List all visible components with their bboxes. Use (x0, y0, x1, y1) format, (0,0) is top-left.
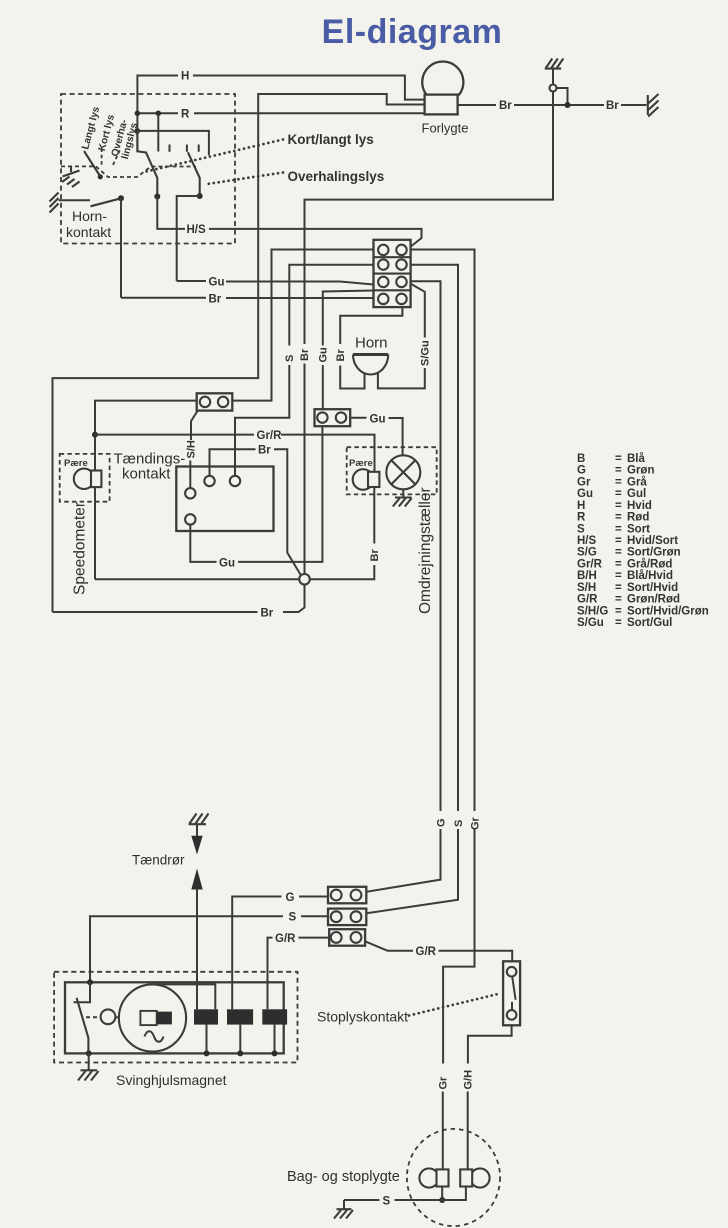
svg-text:Gu: Gu (219, 557, 235, 569)
dashed lever under Kort lys (101, 149, 103, 166)
svg-text:Sort/Gul: Sort/Gul (627, 617, 672, 629)
wire row1-right Gr down (411, 250, 475, 812)
wire points to ground (88, 1053, 90, 1070)
light switch dashed enclosure box (61, 94, 235, 244)
wire Gr/R (instrument lighting) (95, 434, 254, 436)
flywheel magneto solid box (65, 982, 284, 1053)
coil ground stubs (206, 1025, 208, 1054)
wire row1-left to instrument connector (232, 250, 373, 401)
svg-text:Pære: Pære (349, 458, 373, 469)
mechanical coupling dashed line (61, 166, 196, 177)
spark plug arrow up (191, 869, 202, 890)
svg-text:=: = (615, 605, 622, 617)
svg-text:kontakt: kontakt (66, 224, 111, 240)
tachometer lamp (X symbol) (386, 455, 420, 489)
contact tick switch2 b (198, 145, 200, 152)
horn contact ground (50, 193, 59, 213)
spark plug arrow down (191, 836, 202, 855)
speedometer bulb (74, 469, 94, 489)
dashed lever under Overhalingslys (113, 150, 120, 165)
ground (switch box internal) (62, 166, 80, 187)
solid selector pointer lever (84, 151, 100, 176)
svg-text:=: = (615, 488, 622, 500)
svg-text:G/R: G/R (577, 594, 598, 606)
svg-text:Hvid: Hvid (627, 500, 652, 512)
svg-text:=: = (615, 453, 622, 465)
svg-text:=: = (615, 465, 622, 477)
tail lamp bulb left (419, 1168, 438, 1187)
wire S lower (366, 829, 458, 913)
contact tick switch2 a (186, 145, 188, 152)
wire G/H from stop switch down (468, 1025, 512, 1063)
wire Br (ignition to junction circle) (210, 449, 256, 476)
svg-text:=: = (615, 476, 622, 488)
connector C2 (2-pin, tacho) (315, 409, 351, 426)
svg-text:H: H (181, 71, 189, 83)
svg-text:Bag- og stoplygte: Bag- og stoplygte (287, 1169, 400, 1185)
svg-text:Gr/R: Gr/R (577, 558, 603, 570)
wire row2-left (S) down to ignition switch (289, 265, 373, 346)
svg-text:Overhalingslys: Overhalingslys (288, 169, 385, 184)
sine symbol (145, 1031, 164, 1042)
wire G/R (coil3 to connector) (268, 938, 273, 1010)
svg-text:Blå: Blå (627, 453, 646, 465)
stop light switch box (503, 961, 520, 1025)
ground tail light (343, 1200, 345, 1209)
ignition switch box Taendingskontakt (176, 467, 273, 532)
svg-text:Forlygte: Forlygte (422, 121, 469, 136)
svg-text:=: = (615, 558, 622, 570)
svg-text:B/H: B/H (577, 570, 597, 582)
svg-text:Stoplyskontakt: Stoplyskontakt (317, 1009, 408, 1025)
horn contact wire (59, 199, 91, 201)
node horn contact dot (118, 195, 124, 201)
svg-text:G/R: G/R (275, 933, 296, 945)
svg-text:Omdrejningstæller: Omdrejningstæller (417, 487, 434, 614)
bullet connector (open circle) (550, 85, 557, 92)
svg-text:G: G (577, 465, 586, 477)
svg-text:S: S (383, 1195, 391, 1207)
svg-text:Br: Br (335, 349, 347, 362)
svg-text:S: S (577, 523, 585, 535)
wire Gu C2 to tacho lamp (350, 417, 366, 419)
wire row2-right S down (411, 265, 458, 811)
wire G lower (366, 829, 440, 892)
switch lever kort/langt lys (137, 131, 157, 197)
block pins row4 (378, 294, 388, 304)
headlight Forlygte dome (422, 62, 463, 95)
svg-text:Grøn: Grøn (627, 465, 654, 477)
wire from switch2 pivot down (to Gu) (177, 196, 200, 281)
svg-text:R: R (181, 109, 190, 121)
magnet rect black part (157, 1012, 172, 1025)
legend (577, 453, 709, 629)
node Br junction dot (565, 102, 571, 108)
svg-text:G/H: G/H (463, 1070, 475, 1090)
svg-text:B: B (577, 453, 585, 465)
horn (353, 353, 388, 356)
node switch2 pivot dot (197, 193, 203, 199)
tacho bulb (353, 469, 374, 490)
svg-text:=: = (615, 535, 622, 547)
svg-text:=: = (615, 512, 622, 524)
wire G (coil2 to connector) (232, 897, 281, 1010)
svg-text:Br: Br (209, 294, 222, 306)
svg-text:S: S (289, 912, 297, 924)
node switch1 pivot dot (154, 194, 160, 200)
wire Br junction to speedometer (95, 578, 299, 580)
wire ground to bullet connector (552, 69, 554, 85)
svg-text:Horn-: Horn- (72, 208, 107, 224)
svg-text:Grå: Grå (627, 476, 647, 488)
wire horn contact down to Br (120, 198, 122, 297)
svg-text:=: = (615, 617, 622, 629)
condenser dashed link (86, 1016, 100, 1018)
svg-text:S/H: S/H (577, 582, 596, 594)
wire connector to Br line (557, 88, 568, 105)
speedometer bulb dashed box (60, 454, 110, 502)
label Overha-lingslys (rotated) (110, 118, 141, 160)
svg-text:H/S: H/S (577, 535, 597, 547)
svg-text:Gul: Gul (627, 488, 646, 500)
wire C1-left to speedometer bulb (95, 401, 197, 471)
wire Br junction down to bottom loop (283, 585, 305, 612)
wire bulb down to Br (94, 487, 96, 579)
svg-text:S: S (284, 355, 296, 362)
connector block (4-row terminal strip) (374, 240, 411, 307)
wire G/R right (to stop light switch) (365, 941, 413, 951)
svg-text:H: H (577, 500, 585, 512)
svg-text:Svinghjulsmagnet: Svinghjulsmagnet (116, 1072, 227, 1088)
wire row4 bottom Br to horn (340, 307, 402, 344)
wire S (points to connector) (90, 916, 283, 982)
wire S (344, 1199, 380, 1201)
block pins row1 (378, 245, 388, 255)
svg-text:Br: Br (369, 549, 381, 562)
svg-text:S: S (453, 820, 465, 827)
tail light dashed circle (407, 1129, 500, 1226)
svg-text:Gr/R: Gr/R (257, 430, 283, 442)
stop light switch lever (512, 977, 515, 1000)
wire ground to spark gap (196, 824, 198, 836)
ignition coil (black) (194, 1009, 218, 1024)
wire Br (horn contact to connector block row4) (121, 297, 206, 299)
wire Gu (switch to connector block row3) (177, 280, 206, 282)
wire lamp to ground (402, 489, 404, 497)
svg-text:Sort/Hvid: Sort/Hvid (627, 582, 678, 594)
svg-text:S/H: S/H (185, 440, 197, 458)
node Gr/R junction dot (92, 432, 98, 438)
spark plug ground (189, 814, 209, 825)
svg-text:=: = (615, 500, 622, 512)
svg-text:=: = (615, 582, 622, 594)
switch lever overhalingslys (188, 152, 200, 196)
wire Br headlight right (458, 104, 496, 106)
ground magneto (78, 1070, 99, 1080)
contact breaker lever (77, 998, 89, 1054)
svg-text:Kort/langt lys: Kort/langt lys (288, 132, 374, 147)
svg-text:Grå/Rød: Grå/Rød (627, 558, 672, 570)
wire Gu (ignition bottom to connector C2) (190, 525, 216, 562)
horn contact lever (91, 198, 122, 206)
dotted callout to Overhalingslys (204, 173, 283, 185)
magnet rect white part (140, 1011, 156, 1025)
svg-text:G/R: G/R (416, 946, 437, 958)
svg-text:Br: Br (261, 608, 274, 620)
svg-text:Horn: Horn (355, 335, 388, 352)
svg-text:=: = (615, 570, 622, 582)
svg-text:G: G (435, 818, 447, 827)
wire R contact stub (157, 113, 159, 151)
wire S/H (C1 to ignition switch) (191, 411, 198, 440)
svg-text:S/G: S/G (577, 547, 597, 559)
svg-text:=: = (615, 523, 622, 535)
svg-text:Gr: Gr (469, 816, 481, 830)
svg-text:Gu: Gu (209, 277, 225, 289)
ground right of headlight (648, 94, 659, 117)
wire row3/4 S/Gu to horn (411, 284, 425, 338)
lighting coil G/R (black) (262, 1009, 287, 1024)
svg-text:Grøn/Rød: Grøn/Rød (627, 594, 680, 606)
contact breaker wire from S (87, 979, 93, 985)
svg-text:Sort/Hvid/Grøn: Sort/Hvid/Grøn (627, 605, 709, 617)
wire Gr lower (to stop light area) (443, 829, 474, 1064)
svg-text:H/S: H/S (187, 224, 207, 236)
svg-text:G: G (286, 892, 295, 904)
block pins row3 (378, 277, 388, 287)
svg-text:Pære: Pære (64, 458, 88, 469)
node: H/R junction dots (135, 111, 141, 117)
dotted callout to stop light switch (409, 994, 500, 1016)
lighting coil G (black) (227, 1009, 253, 1024)
svg-text:Rød: Rød (627, 512, 649, 524)
block pins row2 (378, 259, 388, 269)
tail lamp bulb right (470, 1168, 489, 1187)
svg-text:El-diagram: El-diagram (322, 13, 503, 51)
svg-text:S/Gu: S/Gu (577, 617, 604, 629)
flywheel rotor circle (119, 984, 186, 1051)
svg-text:Sort: Sort (627, 523, 650, 535)
dotted callout to Kort/langt lys (142, 140, 283, 173)
svg-text:kontakt: kontakt (122, 466, 171, 483)
flywheel magneto dashed box (54, 972, 297, 1063)
svg-text:R: R (577, 512, 586, 524)
tacho bulb dashed box (347, 447, 437, 494)
svg-text:Br: Br (258, 445, 271, 457)
svg-text:Gr: Gr (438, 1076, 450, 1090)
svg-text:Blå/Hvid: Blå/Hvid (627, 570, 673, 582)
svg-text:Gu: Gu (317, 347, 329, 362)
ground tacho lamp (393, 498, 412, 507)
svg-text:Speedometer: Speedometer (72, 502, 89, 595)
contact tick switch1 (169, 145, 171, 152)
svg-text:=: = (615, 547, 622, 559)
condenser tick to flywheel (115, 1016, 119, 1018)
condenser circle (101, 1009, 116, 1024)
wire Gu row3 to C2 (323, 291, 374, 346)
wire spark plug to ignition coil (196, 890, 198, 1010)
wire flywheel to ignition coil (153, 984, 216, 1009)
svg-text:Hvid/Sort: Hvid/Sort (627, 535, 678, 547)
wire parking-light feed (headlight to speedometer loop) (53, 94, 425, 612)
junction circle (Br distribution) (299, 574, 310, 585)
svg-text:Gr: Gr (577, 476, 591, 488)
svg-text:Gu: Gu (370, 413, 386, 425)
wire H/S (157, 197, 185, 229)
connector C1 (2-pin, instruments) (197, 393, 233, 410)
wire Br main drop (to junction circle) (305, 92, 554, 345)
ground above connector (545, 59, 564, 69)
wire left bulb to S (441, 1187, 443, 1201)
wire H (headlight main feed) (137, 76, 178, 152)
svg-text:Br: Br (299, 348, 311, 361)
svg-text:Gu: Gu (577, 488, 593, 500)
svg-text:=: = (615, 594, 622, 606)
headlight Forlygte body (425, 95, 458, 115)
svg-text:Br: Br (606, 100, 619, 112)
connector D3 (2-pin) (329, 929, 365, 946)
wire to switch2 upper contact (137, 131, 209, 155)
wire row3-right G down (411, 281, 441, 811)
svg-text:Tændrør: Tændrør (132, 853, 185, 868)
svg-text:Sort/Grøn: Sort/Grøn (627, 547, 681, 559)
connector D1 (2-pin) (328, 887, 366, 904)
svg-text:S/H/G: S/H/G (577, 605, 608, 617)
svg-text:S/Gu: S/Gu (420, 340, 432, 366)
connector D2 (2-pin) (328, 909, 366, 926)
svg-text:Br: Br (499, 100, 512, 112)
wire R (137, 112, 178, 114)
wire tacho bulb down Br (373, 487, 375, 544)
